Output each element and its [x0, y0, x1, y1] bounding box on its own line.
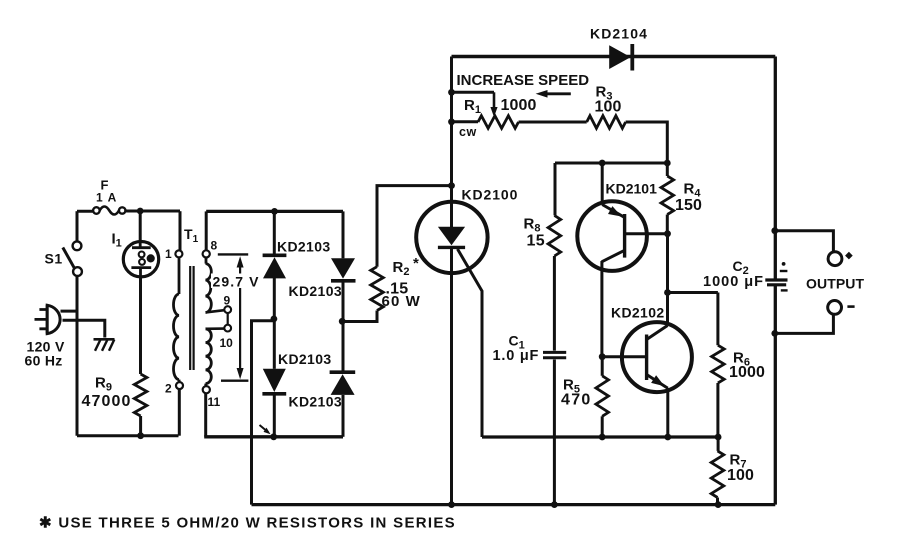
label R3 100 [595, 84, 622, 116]
svg-text:INCREASE SPEED: INCREASE SPEED [457, 72, 590, 89]
lamp I1 [123, 242, 158, 277]
label KD2102 [611, 305, 664, 321]
svg-text:1 A: 1 A [96, 191, 117, 205]
svg-text:47000: 47000 [82, 393, 132, 410]
node R4-top [664, 160, 671, 167]
label S1 [45, 251, 63, 267]
node lamp-top [137, 208, 144, 215]
transformer T1 secondary [203, 250, 232, 393]
node output-minus-tap [771, 330, 778, 337]
capacitor C1 [543, 352, 566, 357]
label 120V 60Hz [25, 339, 65, 369]
resistor R4 [661, 163, 674, 234]
svg-text:✱ USE THREE 5 OHM/20 W RESISTO: ✱ USE THREE 5 OHM/20 W RESISTORS IN SERI… [39, 515, 456, 532]
label 11 [208, 395, 221, 409]
label R2* [393, 255, 420, 278]
label R4 150 [675, 181, 702, 215]
label 29.7 V [211, 274, 262, 290]
wire R8 rail [555, 162, 667, 165]
resistor R2 [371, 267, 384, 311]
wire switch to bottom-left [76, 276, 79, 436]
svg-text:29.7 V: 29.7 V [213, 274, 260, 290]
label C1 [509, 333, 525, 352]
svg-text:100: 100 [595, 99, 622, 116]
label R8 15 [524, 216, 545, 250]
label R5 470 [561, 377, 592, 409]
svg-text:10: 10 [220, 336, 234, 350]
node R5-bottom [599, 434, 606, 441]
wire R6 feed [668, 291, 718, 294]
ground [94, 339, 115, 351]
label KD2103 D1 [277, 239, 330, 255]
svg-text:1000: 1000 [729, 364, 765, 381]
dimension 29.7V [218, 254, 249, 380]
label KD2104 [590, 26, 648, 42]
svg-text:KD2102: KD2102 [611, 305, 664, 321]
label R6 1000 [729, 350, 765, 382]
node bridge right-mid [339, 318, 346, 325]
svg-text:R2: R2 [393, 259, 410, 278]
wire output minus [775, 314, 834, 333]
label 8 [211, 239, 218, 253]
svg-text:2: 2 [165, 382, 172, 396]
terminal output + [828, 252, 842, 266]
svg-text:8: 8 [211, 239, 218, 253]
transformer T1 primary [174, 250, 184, 435]
node emitter-top [599, 160, 606, 167]
wire R2 to anode rail [377, 186, 452, 267]
wire output plus [775, 231, 834, 252]
resistor R8 [548, 163, 561, 256]
label T1 [184, 226, 199, 245]
label 1000uF [703, 274, 764, 290]
wire top rail [452, 55, 776, 58]
wire tick at bridge-bottom [260, 425, 271, 434]
svg-text:1000: 1000 [501, 97, 537, 114]
node R7-bottom [715, 501, 722, 508]
svg-text:KD2104: KD2104 [590, 26, 648, 42]
terminal output - [828, 301, 842, 315]
label C2 [733, 258, 749, 277]
wire SCR cathode [450, 273, 453, 505]
resistor R7 [711, 437, 724, 505]
svg-text:I1: I1 [112, 231, 122, 250]
pot R1 wiper arrow [490, 92, 497, 117]
node cathode-rail [448, 501, 455, 508]
node wiper-tap [448, 89, 455, 96]
node R9-bottom [137, 432, 144, 439]
node C1-bottom [551, 501, 558, 508]
label R1 1000 [464, 97, 537, 116]
wire SCR gate [458, 249, 483, 437]
node R1-left [448, 118, 455, 125]
label 60 W [382, 293, 421, 310]
svg-text:100: 100 [727, 467, 754, 484]
svg-text:KD2103: KD2103 [278, 351, 331, 367]
label R9 47000 [82, 375, 132, 411]
wire lamp to R9 [139, 277, 142, 374]
resistor R1 [452, 116, 519, 129]
label KD2103 D2 [289, 283, 342, 299]
svg-text:1: 1 [165, 247, 172, 261]
footnote [39, 515, 456, 532]
svg-text:T1: T1 [184, 226, 199, 245]
wire T1-11 to bridge rail [204, 393, 207, 437]
node bridge left-mid [271, 316, 278, 323]
label 1 [165, 247, 172, 261]
wire R2 feed [342, 311, 377, 322]
node output-plus-tap [771, 227, 778, 234]
svg-text:*: * [413, 255, 419, 272]
svg-text:60 W: 60 W [382, 293, 421, 310]
svg-text:KD2103: KD2103 [277, 239, 330, 255]
wire gate rail [482, 435, 718, 438]
wire bottom-left rail [77, 434, 179, 437]
label KD2101 [606, 181, 658, 197]
wire KD2101 emitter up [601, 163, 604, 206]
svg-text:60 Hz: 60 Hz [25, 353, 63, 369]
label KD2100 [462, 187, 519, 203]
wire KD2101 collector down [600, 261, 603, 357]
wire anode drop [450, 57, 453, 203]
label 10 [220, 336, 234, 350]
svg-text:1.0 μF: 1.0 μF [493, 348, 540, 364]
svg-text:S1: S1 [45, 251, 63, 267]
wire KD2102 emitter down [666, 388, 669, 437]
wire D3 to bridge bottom [273, 394, 276, 437]
wire bridge right-top [342, 211, 345, 258]
arrow increase-speed [536, 90, 571, 98]
wire R8 to C1 [553, 256, 556, 351]
svg-text:KD2103: KD2103 [289, 394, 342, 410]
label I1 [112, 231, 122, 250]
label F 1A [96, 178, 117, 205]
wire R3 to R4 corner [626, 122, 668, 163]
wire D2 to right-mid [342, 281, 345, 322]
node bridge-top [271, 208, 278, 215]
label R7 100 [727, 452, 754, 485]
wire D4 to bridge bottom [342, 395, 345, 437]
wire R1 to R3 [519, 121, 587, 124]
resistor R3 [587, 116, 626, 129]
diode KD2103 D1 [263, 255, 287, 278]
wire R9 to rail [139, 416, 142, 436]
plug 120V [35, 305, 61, 333]
label minus [847, 305, 854, 308]
diode KD2104 [609, 44, 632, 71]
node bridge-bottom [270, 433, 277, 440]
diode KD2103 D3 [262, 369, 286, 394]
svg-text:KD2100: KD2100 [462, 187, 519, 203]
label 1.0uF [493, 348, 540, 364]
svg-text:KD2101: KD2101 [606, 181, 658, 197]
wire T1-8 to bridge rail [205, 211, 208, 250]
diode KD2103 D2 [331, 258, 356, 281]
svg-text:9: 9 [224, 294, 231, 308]
label 9 [224, 294, 231, 308]
wire bridge top rail [206, 210, 343, 213]
transformer T1 core [190, 266, 193, 370]
svg-text:150: 150 [675, 197, 702, 214]
label OUTPUT [806, 276, 864, 292]
wire left-bottom branch [273, 319, 276, 369]
svg-text:KD2103: KD2103 [289, 283, 342, 299]
node R5-top [599, 353, 606, 360]
wire wiper feed [452, 91, 495, 94]
diode KD2103 D4 [330, 372, 356, 395]
resistor R5 [596, 357, 609, 437]
wire DC-minus rail [252, 503, 776, 506]
wire left-mid jog to DC-minus [252, 321, 274, 505]
svg-text:OUTPUT: OUTPUT [806, 276, 864, 292]
wire T1 primary top lead [179, 211, 182, 250]
svg-text:1000 μF: 1000 μF [703, 274, 764, 290]
wire right drop [774, 57, 777, 281]
label INCREASE SPEED [457, 72, 590, 89]
switch S1 [63, 241, 82, 276]
wire left drop to switch [76, 211, 79, 241]
wire C1 to DC-minus [553, 360, 556, 505]
wire plug to switch line [61, 310, 78, 313]
node R6-tap [664, 289, 671, 296]
svg-text:R9: R9 [95, 375, 112, 394]
wire bridge left-top [273, 211, 276, 255]
SCR KD2100 [416, 202, 487, 273]
svg-text:11: 11 [208, 395, 221, 409]
wire to lamp I1 [139, 211, 142, 242]
label KD2103 D3 [278, 351, 331, 367]
wire right drop lower [774, 285, 777, 505]
svg-text:cw: cw [459, 125, 477, 139]
label plus [845, 252, 853, 260]
node R2-anode [448, 182, 455, 189]
label .15 [386, 281, 409, 298]
node KD2101-base [664, 230, 671, 237]
wire bridge bottom rail [204, 435, 343, 438]
transistor KD2101 [577, 201, 667, 271]
label KD2103 D4 [289, 394, 342, 410]
wire right-bottom branch [342, 321, 345, 372]
wire D1 to left-mid [273, 278, 276, 319]
wire plug to ground [63, 320, 105, 337]
svg-text:15: 15 [527, 233, 545, 250]
label 2 [165, 382, 172, 396]
resistor R9 [134, 374, 147, 416]
node R6-R7 [715, 434, 722, 441]
label cw [459, 125, 477, 139]
transistor KD2102 [602, 322, 692, 392]
wire top-left rail [77, 210, 180, 213]
resistor R6 [712, 293, 725, 438]
svg-text:470: 470 [561, 392, 592, 409]
svg-text:R1: R1 [464, 97, 481, 116]
node emitter-gate-rail [664, 434, 671, 441]
wire base-collector link [666, 234, 669, 325]
fuse F [93, 207, 125, 215]
capacitor C2 [765, 262, 787, 290]
